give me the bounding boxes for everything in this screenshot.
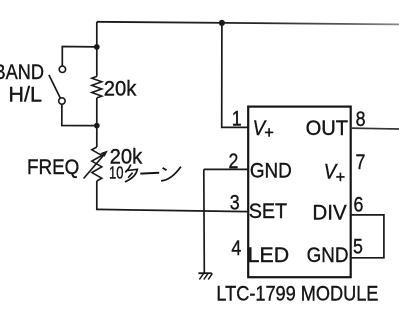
potentiometer FREQ 20k zigzag [92,147,102,181]
svg-text:8: 8 [356,108,366,131]
wire GND pin 2 stub [204,168,248,170]
svg-text:+: + [336,168,346,186]
node junction top of switch branch [94,44,100,50]
svg-text:7: 7 [355,151,365,174]
svg-text:OUT: OUT [306,117,349,140]
wire resistor bottom to potentiometer top [96,98,98,147]
pin 1 label V+ [253,117,274,142]
switch BAND H/L lever [49,75,60,98]
katakana N [163,168,167,170]
wire pin 8 OUT output [351,127,399,130]
potentiometer FREQ wiper arrow [84,155,105,179]
label 10 turns (10ターン) [109,163,181,183]
svg-text:DIV: DIV [312,201,346,224]
svg-text:LED: LED [248,244,290,267]
svg-text:GND: GND [307,244,349,267]
svg-text:1: 1 [232,108,242,131]
katakana TA [125,165,131,173]
wire main left vertical (V+ to resistor top) [96,22,98,77]
wire SET to potentiometer [97,209,248,211]
wire switch branch top [62,47,97,67]
katakana long vowel bar [140,172,159,175]
node junction bottom of switch branch [94,123,100,129]
ground [198,273,212,279]
wire GND to ground [203,169,206,273]
svg-text:3: 3 [230,192,240,215]
svg-text:4: 4 [231,237,241,260]
svg-text:GND: GND [250,160,292,183]
wire top supply rail [97,22,399,25]
svg-text:5: 5 [353,236,363,259]
switch BAND H/L top contact [59,66,65,72]
wire potentiometer bottom to corner [96,181,98,210]
svg-text:BAND: BAND [0,61,44,84]
svg-text:10: 10 [109,163,124,183]
pin 7 label V+ [324,160,346,186]
svg-text:20k: 20k [104,77,137,100]
wire pin 1 branch from top rail [222,23,249,128]
svg-text:H/L: H/L [8,84,42,107]
wire pin 6 to pin 5 loop [351,215,384,258]
svg-text:LTC-1799 MODULE: LTC-1799 MODULE [216,280,378,305]
switch BAND H/L bottom contact [59,98,65,104]
svg-text:SET: SET [249,200,288,223]
svg-text:FREQ: FREQ [27,156,79,179]
node junction top rail to pin 1 [219,20,225,26]
svg-text:6: 6 [353,194,363,217]
resistor 20k (band divider) [92,76,102,98]
svg-text:+: + [264,124,274,142]
svg-text:2: 2 [228,150,238,173]
IC LTC-1799 MODULE body [248,107,351,278]
wire switch branch bottom [62,104,97,125]
